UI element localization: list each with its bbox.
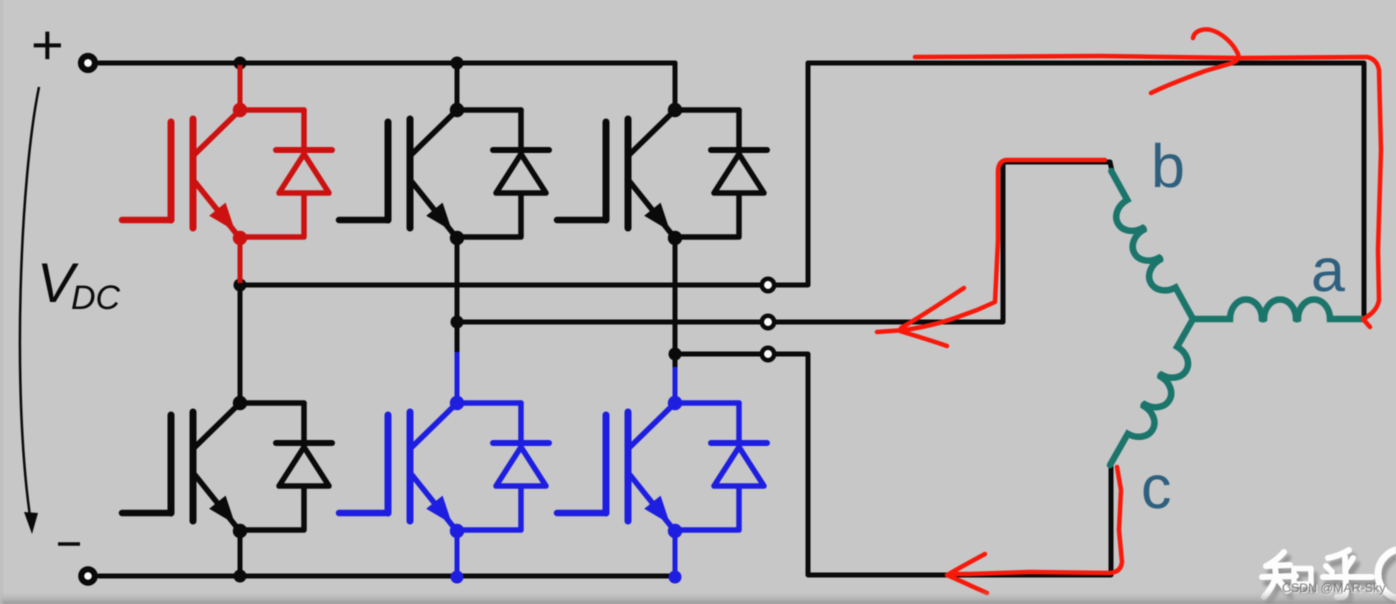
svg-text:DC: DC [71, 279, 121, 317]
svg-text:b: b [1151, 132, 1185, 200]
svg-text:+: + [31, 13, 64, 76]
svg-text:a: a [1311, 236, 1345, 304]
svg-text:c: c [1141, 453, 1172, 521]
